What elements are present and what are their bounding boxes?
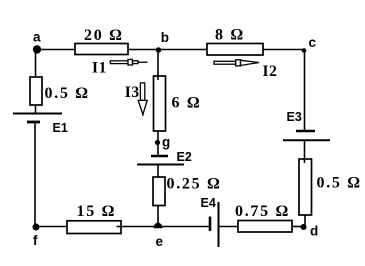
svg-text:g: g	[162, 135, 170, 150]
current arrow I1	[92, 59, 148, 76]
wire	[219, 226, 240, 228]
resistor 20Ω	[75, 27, 128, 55]
node f	[33, 224, 40, 249]
wire	[291, 226, 305, 228]
svg-text:0.25 Ω: 0.25 Ω	[167, 175, 222, 192]
svg-text:0.75 Ω: 0.75 Ω	[235, 203, 290, 220]
battery E3	[283, 110, 330, 140]
resistor 0.5Ω (right)	[299, 159, 362, 215]
svg-text:E4: E4	[201, 196, 216, 210]
battery E4	[201, 196, 219, 247]
svg-text:0.5 Ω: 0.5 Ω	[45, 85, 90, 102]
resistor 8Ω	[207, 27, 263, 56]
resistor 0.25Ω	[153, 175, 222, 205]
svg-text:d: d	[310, 224, 318, 239]
svg-text:E1: E1	[53, 121, 68, 135]
svg-text:c: c	[309, 35, 317, 50]
wire	[157, 205, 159, 227]
svg-text:E3: E3	[287, 110, 302, 124]
wire	[157, 130, 159, 156]
svg-text:I2: I2	[263, 63, 278, 80]
wire	[35, 104, 37, 114]
wire	[157, 50, 159, 81]
wire	[120, 226, 158, 228]
wire	[304, 140, 306, 160]
svg-text:f: f	[33, 233, 38, 248]
wire	[158, 226, 209, 228]
svg-text:8 Ω: 8 Ω	[215, 27, 245, 44]
node e	[154, 222, 164, 249]
svg-text:b: b	[161, 30, 169, 45]
battery E2	[137, 150, 192, 165]
wire	[34, 122, 36, 227]
node d	[301, 224, 319, 239]
svg-text:a: a	[33, 30, 41, 45]
wire	[157, 165, 159, 179]
resistor 15Ω	[67, 203, 121, 233]
wire	[36, 226, 68, 228]
svg-text:6 Ω: 6 Ω	[172, 94, 202, 111]
svg-text:15 Ω: 15 Ω	[77, 203, 117, 220]
wire	[127, 49, 208, 51]
wire	[304, 50, 306, 132]
wire	[304, 214, 306, 227]
node a	[33, 30, 41, 54]
node g	[155, 135, 170, 150]
resistor 0.5Ω (left)	[30, 77, 90, 105]
svg-text:I3: I3	[125, 84, 140, 101]
svg-text:20 Ω: 20 Ω	[84, 27, 124, 44]
wire	[35, 50, 37, 79]
resistor 6Ω	[154, 76, 202, 131]
current arrow I2	[214, 60, 277, 80]
current arrow I3	[125, 83, 147, 116]
svg-text:e: e	[156, 234, 164, 249]
svg-text:0.5 Ω: 0.5 Ω	[317, 175, 362, 192]
node b	[156, 30, 169, 53]
battery E1	[13, 114, 68, 136]
wire	[37, 49, 76, 51]
svg-text:I1: I1	[92, 59, 107, 76]
node c	[302, 35, 317, 53]
wire	[262, 49, 305, 51]
svg-text:E2: E2	[177, 150, 192, 164]
resistor 0.75Ω	[235, 203, 292, 232]
